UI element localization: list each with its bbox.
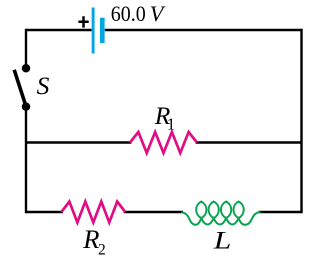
battery plus sign — [78, 16, 88, 27]
wire bottom-right segment — [259, 211, 302, 213]
svg-text:R: R — [82, 224, 99, 254]
svg-text:60.0: 60.0 — [111, 1, 146, 26]
svg-text:S: S — [37, 71, 50, 100]
svg-text:L: L — [213, 228, 232, 255]
resistor R2 — [61, 202, 125, 223]
resistor R1 — [130, 132, 197, 153]
wire top-left segment — [26, 29, 92, 31]
wire top-right segment — [105, 29, 302, 31]
switch bottom contact dot — [22, 102, 31, 111]
wire right side — [300, 29, 302, 213]
wire bottom-middle segment — [124, 211, 183, 213]
battery long plate (+) — [92, 8, 95, 54]
wire left top (battery to switch) — [25, 29, 27, 65]
battery short plate (-) — [100, 18, 105, 43]
svg-text:1: 1 — [167, 115, 175, 134]
wire middle-right segment — [196, 141, 302, 143]
switch blade — [14, 70, 25, 105]
wire middle-left segment — [26, 141, 132, 143]
switch top contact dot — [22, 64, 31, 73]
wire bottom-left segment — [26, 211, 63, 213]
inductor L — [181, 202, 260, 225]
wire left bottom (switch to bottom corner) — [25, 107, 27, 214]
svg-text:2: 2 — [98, 241, 106, 258]
svg-text:V: V — [150, 1, 166, 26]
